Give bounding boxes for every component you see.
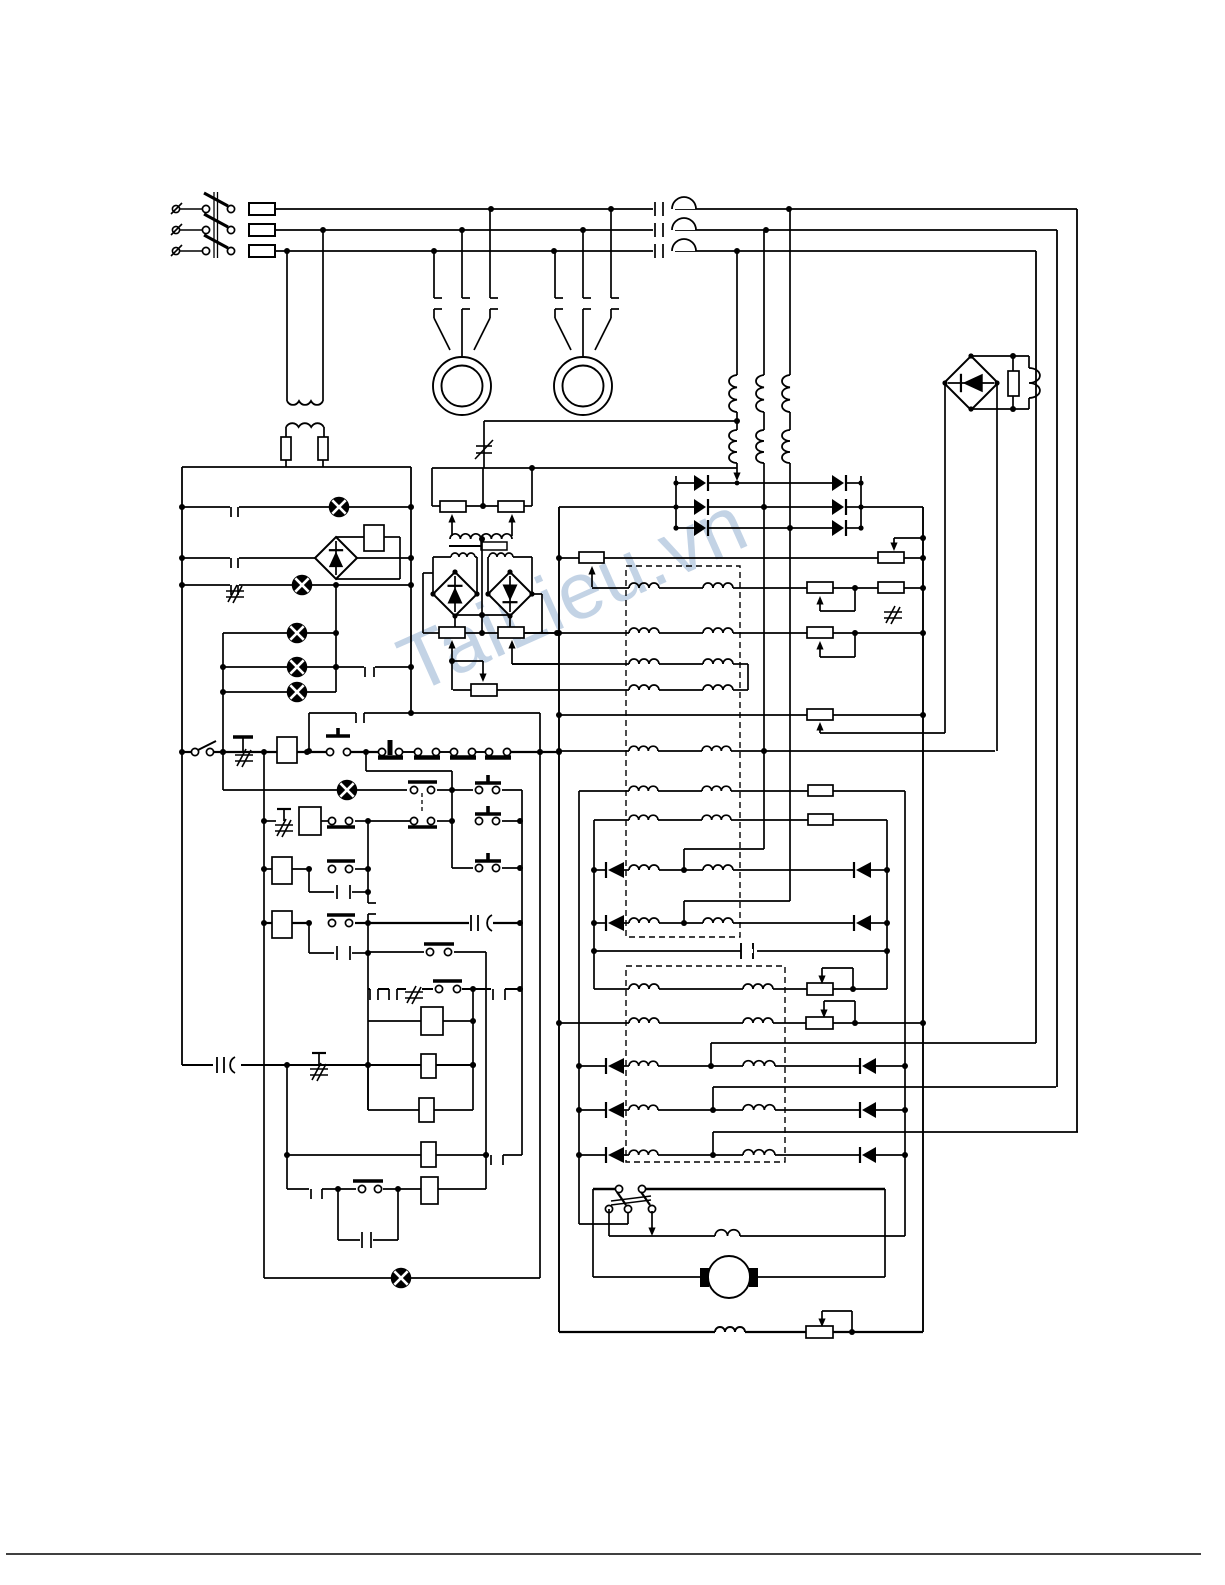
motor M1 leads <box>434 309 490 357</box>
start button SB2 <box>326 728 351 756</box>
wire T1 sec down x790 <box>787 463 793 901</box>
wire L1 bus <box>275 208 1077 210</box>
transformer T1 link x764 <box>763 412 765 430</box>
T2 sec leads <box>286 427 324 437</box>
wire x287 drop <box>284 1065 290 1189</box>
watermark <box>298 438 847 750</box>
resistor R8 <box>807 983 833 995</box>
inductor L3a <box>629 659 659 664</box>
row952 wire <box>368 951 486 953</box>
inductor L5b <box>702 746 731 751</box>
diode row528 wires <box>676 527 861 529</box>
wire x594 <box>591 820 597 989</box>
relay coil KA3 <box>272 857 292 884</box>
diode VD9 <box>606 1102 624 1118</box>
fuse F1 <box>249 203 275 215</box>
row1132 wire <box>713 1132 1078 1155</box>
resistor R2a <box>807 582 833 593</box>
capacitor C4 <box>741 943 753 959</box>
diode row507 wires <box>676 506 861 508</box>
resistor R1b <box>878 552 904 563</box>
wire sec-b right <box>513 557 532 594</box>
module top box <box>432 465 535 506</box>
T3 secondary a <box>451 553 475 557</box>
switch linkage bar <box>214 192 218 258</box>
u-turn 748 <box>747 664 749 690</box>
inductor L10a <box>629 984 659 989</box>
ground flag S <box>275 809 293 837</box>
row692 wire <box>223 691 336 693</box>
node bridge corner <box>968 353 973 358</box>
row1023 wire <box>559 1020 923 1026</box>
resistor R2b <box>878 582 904 593</box>
wire bridge bottom <box>971 406 1029 412</box>
interlock contact SQ4 <box>485 748 511 757</box>
resistor RP1 <box>440 501 466 512</box>
node L3-M1 <box>431 248 437 254</box>
contact KA3a <box>424 944 454 956</box>
row1087 wire <box>713 1087 1056 1110</box>
wire to drum switch <box>579 1209 628 1224</box>
inductor L8b <box>703 865 733 870</box>
arrow to armature <box>648 1211 655 1236</box>
transformer T1 link x737 <box>736 412 738 430</box>
wire box top to T1 <box>432 467 737 469</box>
capacitor C3 <box>217 1057 235 1073</box>
row1066 wire <box>579 1063 905 1069</box>
capacitor C2 <box>471 915 492 931</box>
wire bridge right drop <box>996 383 998 751</box>
rail seg2 <box>297 749 330 755</box>
sub1110 <box>368 1065 473 1110</box>
diode VD7 <box>606 1058 624 1074</box>
wire sec-b left <box>488 557 489 594</box>
node bridge corner <box>994 380 999 385</box>
lamp HL2 <box>293 576 312 595</box>
motor M2 leads <box>555 309 611 357</box>
inductor L9b <box>703 918 733 923</box>
wire x368 drop <box>365 821 376 1110</box>
fuse FU1 <box>281 437 291 460</box>
node dbus 483 <box>673 480 863 485</box>
row1278 wire <box>264 1277 540 1279</box>
wiper RP4 <box>508 640 515 656</box>
bus x923 <box>920 507 926 1332</box>
node L2-M1 <box>459 227 465 233</box>
diode VD6 <box>854 915 871 931</box>
transformer T1 secondary coil x790 <box>782 430 790 463</box>
thyristor VS-R 507 <box>832 499 846 515</box>
circuit breaker QF contact L1 <box>653 197 696 216</box>
row664 wire <box>512 663 748 665</box>
wire tap to regulator <box>484 420 737 422</box>
row791 wire <box>579 790 905 792</box>
control transformer T2 primary <box>287 401 323 405</box>
node L1-M2 <box>608 206 614 212</box>
diode VD4 <box>854 862 871 878</box>
relay coil KA1 <box>277 737 297 763</box>
wire FU2 to box <box>322 460 324 467</box>
row989 wire <box>368 986 523 1000</box>
inductor L1b <box>703 583 733 588</box>
wire L1 right drop <box>1076 209 1078 1132</box>
bracket contact S1 <box>306 710 540 754</box>
top row505 left <box>559 506 676 508</box>
inductor L7a <box>629 815 658 820</box>
inductor L11a <box>629 1018 659 1023</box>
resistor RP2 <box>498 501 524 512</box>
row633R wire <box>524 630 923 636</box>
contact KM3a <box>433 981 462 993</box>
wire FU1 to box <box>285 460 287 467</box>
transformer T1 primary coil x737 <box>729 375 737 412</box>
wire x905 <box>902 791 908 1236</box>
riser 1043 <box>711 1043 1036 1066</box>
resistor R-field <box>1008 356 1019 409</box>
relay coil KA2 <box>299 807 321 835</box>
lamp HL1 <box>330 498 349 517</box>
disconnect switch pole L1 <box>171 193 235 214</box>
wiper R9 <box>820 1001 855 1023</box>
row1110R wire <box>579 1107 905 1113</box>
transformer T1 primary coil x764 <box>756 375 764 412</box>
inductor L2b <box>703 628 733 633</box>
mech link dashed <box>421 793 423 814</box>
trimmer capacitor C1 <box>475 421 493 468</box>
inductor L13b <box>743 1105 775 1110</box>
wire x887 <box>884 820 890 989</box>
inductor L4a <box>629 685 659 690</box>
diode bus right <box>860 476 862 528</box>
control transformer T2 secondary <box>286 423 324 427</box>
row870 wire <box>594 867 887 873</box>
diode bus left <box>675 476 677 528</box>
inductor L14b <box>743 1150 775 1155</box>
wire ctrl drop b <box>320 227 326 401</box>
inductor L10b <box>743 984 773 989</box>
node L2-T <box>763 227 769 233</box>
wire x579 <box>576 791 582 1224</box>
row951 wire <box>594 950 887 952</box>
contact K1 <box>230 505 239 517</box>
resistor R9 <box>806 1017 833 1029</box>
row1155R wire <box>579 1152 905 1158</box>
lamp HL4 <box>288 658 307 677</box>
resistor R1a <box>579 552 604 563</box>
inductor L16 <box>715 1327 745 1332</box>
interlock contact SQ2 <box>414 748 451 757</box>
wire v483 module <box>482 468 484 506</box>
wire ctrl drop a <box>284 248 290 401</box>
wiper R5a <box>816 722 945 733</box>
contact K2 <box>230 556 239 568</box>
transformer T1 secondary coil x737 <box>729 430 737 463</box>
frame right <box>884 1189 886 1277</box>
marks R2b <box>884 606 902 624</box>
wiper RP3 <box>448 640 455 661</box>
wire h615 <box>455 612 510 618</box>
rail seg1 <box>220 749 277 755</box>
left box left rail <box>181 467 183 1065</box>
row505 to bus <box>861 506 923 508</box>
row821 wire <box>264 818 523 824</box>
wire L2 right drop <box>1056 230 1058 1087</box>
wire T1 sec down x737 <box>733 463 740 485</box>
resistor RP3 <box>439 627 465 638</box>
lamp HL3 <box>288 624 307 643</box>
thermal contact KK1 <box>226 583 244 603</box>
relay KV1 loop <box>336 525 400 579</box>
node bridge13 <box>430 569 479 618</box>
wire v482 tap <box>479 539 485 636</box>
row558 wire <box>179 555 414 561</box>
transformer T1 primary feeders <box>737 209 790 375</box>
resistor R6 <box>808 785 833 796</box>
row1021 wire <box>368 1020 473 1022</box>
module outer left <box>423 573 433 633</box>
wiper R3a <box>816 633 855 657</box>
wiper R1a <box>588 566 595 587</box>
wiper tail b <box>512 656 559 664</box>
wiper R2a <box>816 588 855 611</box>
overload marks <box>405 986 423 1004</box>
dashed enclosure 1 <box>626 566 740 937</box>
row1155 wire <box>287 1152 522 1165</box>
relay coil KA9 <box>421 1177 438 1204</box>
wiper RP2 <box>508 514 515 536</box>
wire L3 bus <box>275 250 1036 252</box>
row869 wire <box>264 866 371 872</box>
wire sec-a left <box>433 557 451 594</box>
row1332 wire <box>559 1329 923 1335</box>
row667 wire <box>223 664 414 670</box>
ground flag S2 <box>310 1053 328 1081</box>
node bridge corner <box>942 380 947 385</box>
node L3-M2 <box>551 248 557 254</box>
armature row <box>609 1209 905 1236</box>
inductor L7b <box>702 815 731 820</box>
resistor R10 <box>806 1326 833 1338</box>
disconnect switch pole L3 <box>171 235 235 256</box>
inductor L5a <box>629 746 658 751</box>
transformer T3 primary <box>450 534 512 542</box>
resistor R3a <box>807 627 833 638</box>
inductor L-field <box>1029 356 1040 409</box>
contact KM1a <box>408 782 437 794</box>
bus x559 <box>556 507 562 1332</box>
wire VD13 out <box>452 616 458 636</box>
row751 wire <box>559 750 995 752</box>
row507 wire <box>179 504 414 510</box>
lamp HL5 <box>288 683 307 702</box>
wire x522 drop <box>521 790 523 1155</box>
wire T1 sec elbow x790 <box>684 901 790 923</box>
thyristor VS-R 528 <box>832 520 846 536</box>
ladder left rail x264 <box>261 749 267 1278</box>
inductor L12a <box>629 1061 658 1066</box>
wire rail to row790 <box>366 752 452 790</box>
wire x540 drop <box>537 713 543 1278</box>
inductor L6a <box>629 786 658 791</box>
row715 wire <box>559 714 923 716</box>
node L1-M1 <box>488 206 494 212</box>
row923 wire <box>264 920 523 926</box>
circuit breaker QF contact L2 <box>653 218 696 237</box>
wire L3 right drop <box>1035 251 1037 1043</box>
wiper R8 <box>818 968 853 989</box>
wiper feed 538 <box>890 538 923 551</box>
interlock contact SQ1 <box>378 740 415 758</box>
diode VD10 <box>860 1102 876 1118</box>
contact KM1b <box>408 817 437 827</box>
node T1 tap <box>734 418 740 424</box>
resistor R7 <box>808 814 833 825</box>
contact K3 <box>364 665 375 677</box>
motor M2 <box>554 357 612 415</box>
contactor KM1 contact 1 <box>434 251 442 309</box>
motor M1 <box>433 357 491 415</box>
row989R wire <box>594 986 887 992</box>
thyristor VS-L 528 <box>694 520 708 536</box>
relay coil KA4 <box>272 911 292 938</box>
thyristor VS-L 507 <box>694 499 708 515</box>
stop button SB1 <box>233 737 253 767</box>
contact KA1a <box>327 861 355 873</box>
row1065 wire <box>182 1062 476 1068</box>
link below 1189 <box>338 1189 398 1248</box>
inductor L1a <box>629 583 659 588</box>
module outer right <box>532 594 542 633</box>
wire bridge left drop <box>944 383 946 733</box>
thyristor VS-R 483 <box>832 475 846 491</box>
rail seg4 <box>510 749 562 755</box>
resistor R4 <box>471 684 497 696</box>
contactor KM2 contact 3 <box>611 209 619 309</box>
lamp HL7 <box>392 1269 411 1288</box>
wire x452 drop <box>449 790 455 868</box>
circuit breaker QF contact L3 <box>653 239 696 258</box>
node L2-M2 <box>580 227 586 233</box>
relay coil KA6 <box>421 1054 436 1078</box>
T3 secondary b <box>489 553 513 557</box>
T3 core <box>449 542 507 550</box>
sub953 <box>309 923 368 960</box>
relay coil KA7 <box>419 1098 434 1122</box>
transformer T1 primary coil x790 <box>782 375 790 412</box>
diode VD12 <box>860 1147 876 1163</box>
left box top edge <box>182 466 411 468</box>
wire L2 bus <box>275 229 1057 231</box>
contact KA2a <box>327 915 355 927</box>
node L1-T <box>786 206 792 212</box>
button SB3 <box>475 775 501 794</box>
fuse FU2 <box>318 437 328 460</box>
wire x473 drop <box>470 989 476 1110</box>
rectifier bridge VD1 <box>944 356 998 410</box>
rail 1189 <box>593 1188 885 1190</box>
row585 wire <box>179 582 414 588</box>
row923R wire <box>594 920 887 926</box>
lamp HL6 <box>338 781 357 800</box>
wire bridge top <box>971 353 1029 359</box>
footer rule <box>6 1553 1201 1555</box>
row506 wire <box>432 503 532 509</box>
row633L wire <box>223 632 336 634</box>
row633M wire <box>423 630 560 636</box>
inductor L2a <box>629 628 659 633</box>
resistor RP4 <box>498 627 524 638</box>
wiper RP1 <box>448 514 455 536</box>
diode row483 wires <box>676 482 861 484</box>
row588 wire <box>592 585 923 591</box>
button SB4 <box>475 806 501 825</box>
button SB5 <box>475 853 501 872</box>
node dbus 507 <box>673 504 863 509</box>
drum switch SA2 <box>605 1185 655 1212</box>
fuse F3 <box>249 245 275 257</box>
left box right rail <box>410 467 412 713</box>
dc motor M3 <box>593 1256 885 1298</box>
frame left <box>592 1189 594 1277</box>
contactor KM2 contact 2 <box>583 230 591 309</box>
contactor KM2 contact 1 <box>555 251 563 309</box>
wire sec-a right <box>475 557 477 594</box>
row790 wire <box>223 787 522 793</box>
transformer T1 link x790 <box>789 412 791 430</box>
bridge VD13 <box>433 572 477 616</box>
inductor L3b <box>703 659 733 664</box>
inductor L12b <box>743 1061 775 1066</box>
contactor KM1 contact 3 <box>490 209 498 309</box>
rail switch SA <box>179 741 223 756</box>
sub892 <box>309 869 371 899</box>
inductor L13a <box>629 1105 658 1110</box>
riser x336 <box>333 585 339 692</box>
node L3-T <box>734 248 740 254</box>
fuse F2 <box>249 224 275 236</box>
contact KA4a <box>353 1181 383 1193</box>
row1189 wire <box>287 1186 486 1199</box>
inductor L8a <box>629 865 659 870</box>
wire T1 sec down x764 <box>761 463 767 849</box>
relay coil KA8 <box>421 1142 436 1167</box>
riser x223 <box>220 633 226 790</box>
thyristor VS-L 483 <box>694 475 708 491</box>
node bridge corner <box>968 406 973 411</box>
diode VD5 <box>606 915 624 931</box>
node dbus 528 <box>673 525 863 530</box>
contactor KM1 contact 2 <box>462 230 470 309</box>
row690 wire <box>453 689 748 691</box>
interlock contact SQ3 <box>450 748 486 757</box>
inductor L15 <box>715 1230 740 1236</box>
contact KM2a <box>327 817 355 827</box>
rail seg3 <box>350 749 382 755</box>
diode VD8 <box>860 1058 876 1074</box>
relay coil KA5 <box>421 1007 443 1035</box>
row558R wire <box>559 557 923 559</box>
bridge VD2 <box>315 537 357 579</box>
inductor L4b <box>703 685 733 690</box>
inductor L6b <box>702 786 731 791</box>
wire T1 sec elbow x764 <box>684 849 764 870</box>
row868 wire <box>452 865 523 871</box>
wire x486 drop <box>483 952 489 1189</box>
node bridge14 <box>485 569 534 618</box>
resistor R5a <box>807 709 833 720</box>
row820 wire <box>594 819 887 821</box>
transformer T1 secondary coil x764 <box>756 430 764 463</box>
